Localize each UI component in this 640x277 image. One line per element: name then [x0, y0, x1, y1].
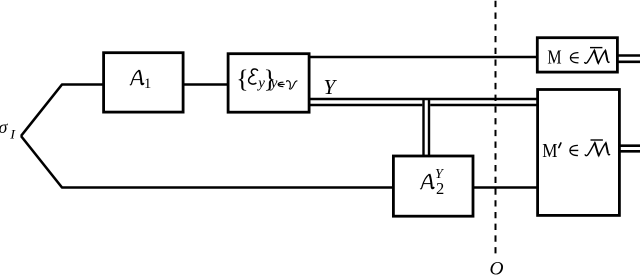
- wire M output double: [617, 56, 640, 62]
- wire vertical double right: [428, 100, 430, 156]
- wire Y double bottom left segment: [309, 104, 422, 107]
- wire M' output double: [619, 146, 640, 152]
- svg-text:1: 1: [144, 76, 151, 92]
- label M' box: prime: [559, 143, 561, 148]
- label M box: script M with bar: [585, 48, 610, 64]
- label M box: element-of: [570, 53, 578, 63]
- svg-text:I: I: [9, 126, 16, 141]
- box E (channel family): [228, 54, 309, 112]
- wire E to M: [309, 56, 537, 59]
- wire fork lower: sigma_I to A2: [21, 136, 393, 188]
- label A1: script A: [130, 70, 144, 85]
- svg-text:y: y: [269, 76, 278, 92]
- label E box: subscript element-of: [278, 82, 285, 87]
- wire Y double top: [309, 98, 537, 101]
- label M' box: element-of: [570, 145, 578, 155]
- wire A1 to E: [184, 83, 228, 86]
- dashed cut line O: [495, 1, 497, 254]
- svg-text:M: M: [542, 140, 557, 162]
- box M': [538, 90, 620, 216]
- label A2: script A: [420, 174, 434, 189]
- box A2: [393, 156, 473, 216]
- box M: [537, 38, 617, 72]
- svg-text:{: {: [236, 64, 248, 93]
- box A1: [104, 53, 184, 112]
- svg-text:O: O: [490, 259, 504, 277]
- wire fork upper: sigma_I to A1: [21, 85, 103, 137]
- label E box: script E: [249, 69, 258, 84]
- svg-text:σ: σ: [0, 117, 9, 137]
- wire A2 to M': [473, 186, 537, 189]
- svg-text:2: 2: [436, 179, 444, 198]
- svg-text:M: M: [547, 47, 561, 69]
- label M' box: script M with bar: [585, 140, 610, 156]
- wire Y double bottom right segment: [430, 104, 537, 107]
- wire vertical double left: [422, 100, 424, 156]
- label E box: subscript script Y: [287, 81, 298, 89]
